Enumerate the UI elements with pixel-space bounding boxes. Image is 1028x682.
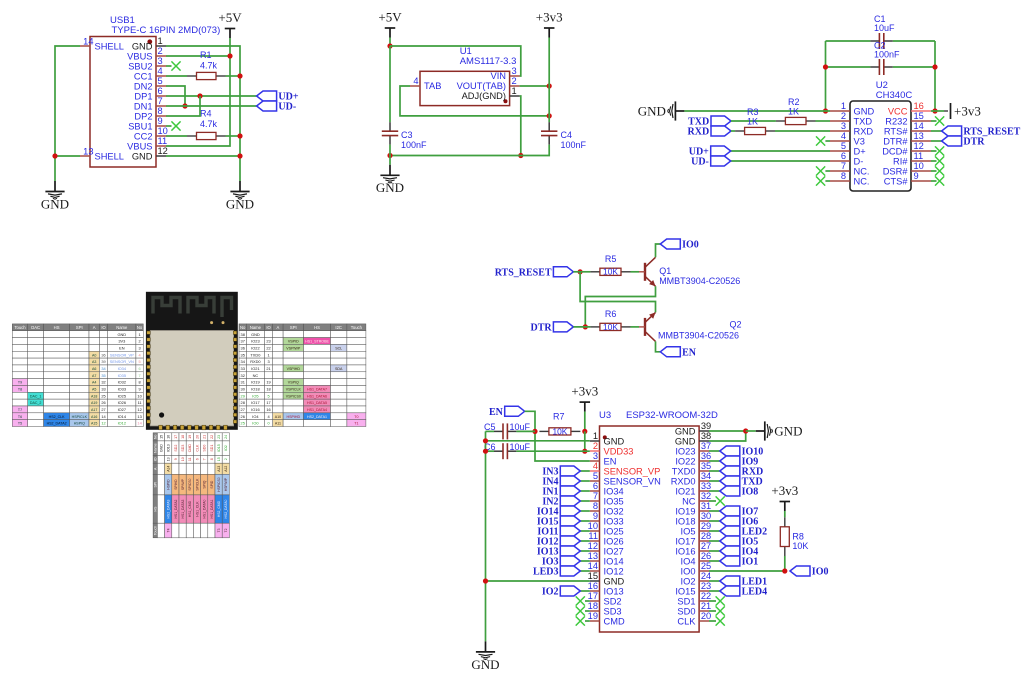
- no-connect: [816, 166, 825, 175]
- junction: [237, 153, 242, 158]
- svg-text:CH340C: CH340C: [876, 90, 913, 101]
- svg-text:13: 13: [167, 457, 171, 461]
- svg-text:R8: R8: [792, 532, 804, 542]
- junction: [547, 113, 552, 118]
- svg-text:HS1_DATA5: HS1_DATA5: [307, 401, 327, 405]
- svg-text:MMBT3904-C20526: MMBT3904-C20526: [658, 331, 739, 341]
- svg-text:2: 2: [512, 76, 517, 86]
- svg-text:DCD#: DCD#: [882, 146, 908, 156]
- svg-text:7: 7: [139, 373, 141, 378]
- svg-text:3: 3: [841, 121, 846, 131]
- wire: [709, 480, 720, 482]
- junction: [483, 578, 488, 583]
- junction: [237, 133, 242, 138]
- svg-text:SD2: SD2: [174, 445, 178, 452]
- wire: [389, 145, 391, 165]
- svg-text:T1: T1: [354, 422, 358, 426]
- svg-text:HS1_DATA7: HS1_DATA7: [307, 387, 327, 391]
- net flag RTS_RESET: [942, 126, 1021, 138]
- svg-text:SPI: SPI: [290, 325, 297, 330]
- wire: [166, 65, 172, 67]
- svg-text:39: 39: [701, 421, 711, 431]
- wire: [731, 160, 830, 162]
- junction: [532, 429, 537, 434]
- wire: [520, 96, 521, 156]
- svg-text:A15: A15: [91, 422, 97, 426]
- wire: [580, 590, 590, 592]
- svg-text:A14: A14: [167, 466, 171, 472]
- svg-text:5: 5: [139, 359, 141, 364]
- svg-text:24: 24: [224, 435, 228, 439]
- wire: [486, 440, 590, 442]
- svg-text:HSPICLK: HSPICLK: [72, 415, 88, 419]
- svg-text:HSPICS0: HSPICS0: [217, 477, 221, 492]
- svg-text:10K: 10K: [603, 322, 618, 332]
- svg-text:5: 5: [841, 141, 846, 151]
- svg-text:26: 26: [101, 400, 105, 405]
- svg-text:23: 23: [701, 581, 711, 591]
- wire: [485, 431, 487, 641]
- svg-text:T9: T9: [18, 381, 22, 385]
- svg-text:T6: T6: [18, 415, 22, 419]
- svg-text:7: 7: [158, 96, 163, 106]
- svg-text:2: 2: [139, 339, 141, 344]
- svg-text:30: 30: [701, 511, 711, 521]
- svg-text:1: 1: [139, 332, 141, 337]
- svg-text:IO0: IO0: [681, 566, 696, 576]
- junction: [237, 73, 242, 78]
- svg-text:HS2_CLK: HS2_CLK: [49, 415, 66, 419]
- svg-text:CMD: CMD: [604, 616, 625, 626]
- svg-text:ADJ(GND): ADJ(GND): [462, 91, 506, 101]
- svg-text:29: 29: [701, 521, 711, 531]
- net flag RXD: [688, 126, 731, 138]
- svg-text:DP1: DP1: [134, 91, 152, 101]
- svg-text:DAC_1: DAC_1: [30, 394, 42, 398]
- IC U2 CH340C: [830, 80, 931, 191]
- svg-text:IO34: IO34: [118, 366, 127, 371]
- wire: [709, 460, 720, 462]
- resistor R1 4.7k: [166, 50, 240, 80]
- svg-text:HSPID: HSPID: [167, 479, 171, 490]
- junction: [582, 429, 587, 434]
- svg-text:9: 9: [914, 171, 919, 181]
- wire: [585, 286, 655, 327]
- svg-text:R7: R7: [553, 412, 565, 422]
- svg-text:12: 12: [914, 141, 924, 151]
- wire: [709, 520, 720, 522]
- svg-text:7: 7: [593, 491, 598, 501]
- no-connect: [576, 606, 585, 615]
- junction: [743, 428, 748, 433]
- svg-text:8: 8: [593, 501, 598, 511]
- svg-text:35: 35: [241, 352, 245, 357]
- svg-text:16: 16: [167, 435, 171, 439]
- svg-text:1K: 1K: [747, 117, 758, 127]
- svg-text:18: 18: [588, 601, 598, 611]
- svg-text:A10: A10: [275, 415, 281, 419]
- net flag UD+: [689, 146, 731, 158]
- svg-text:IO2: IO2: [542, 587, 559, 598]
- resistor R3 1K: [731, 107, 830, 135]
- svg-text:HSPIQ: HSPIQ: [74, 422, 85, 426]
- no-connect: [816, 136, 825, 145]
- svg-text:+3v3: +3v3: [536, 10, 563, 25]
- svg-text:12: 12: [101, 421, 105, 426]
- svg-text:+3v3: +3v3: [571, 384, 598, 399]
- svg-text:IO0: IO0: [812, 567, 829, 578]
- svg-text:SCL: SCL: [335, 346, 342, 350]
- net flag IO6: [720, 516, 758, 528]
- svg-text:HS2_DATA1: HS2_DATA1: [307, 415, 327, 419]
- svg-text:IO23: IO23: [675, 446, 695, 456]
- svg-text:33: 33: [241, 366, 245, 371]
- svg-text:35: 35: [101, 373, 105, 378]
- wire: [580, 540, 590, 542]
- svg-text:Touch: Touch: [14, 325, 26, 330]
- svg-text:IO14: IO14: [118, 414, 127, 419]
- power +3v3: [571, 384, 598, 412]
- svg-text:IO21: IO21: [251, 366, 259, 371]
- svg-text:7: 7: [841, 161, 846, 171]
- svg-text:TXD: TXD: [854, 116, 873, 126]
- wire: [825, 140, 830, 142]
- svg-text:IO5: IO5: [681, 526, 696, 536]
- svg-text:HS1_STROBE: HS1_STROBE: [305, 340, 329, 344]
- svg-text:SHELL: SHELL: [95, 41, 124, 51]
- wire: [580, 550, 590, 552]
- svg-text:+5V: +5V: [218, 10, 242, 25]
- svg-text:U3: U3: [599, 410, 611, 421]
- svg-text:26: 26: [241, 414, 245, 419]
- svg-text:6: 6: [841, 151, 846, 161]
- svg-text:IO25: IO25: [118, 393, 126, 398]
- net flag IO9: [720, 456, 758, 468]
- net flag IO0: [660, 239, 698, 251]
- svg-text:HS1_DATA2: HS1_DATA2: [174, 499, 178, 518]
- transistor Q2 MMBT3904: [639, 312, 742, 341]
- svg-text:22: 22: [210, 435, 214, 439]
- wire: [709, 530, 720, 532]
- no-connect: [576, 596, 585, 605]
- svg-text:SPIQ: SPIQ: [203, 480, 207, 488]
- svg-text:LED4: LED4: [742, 587, 768, 598]
- wire: [166, 105, 257, 107]
- svg-text:RXD0: RXD0: [250, 359, 261, 364]
- svg-text:5: 5: [593, 471, 598, 481]
- svg-text:EN: EN: [604, 456, 617, 466]
- svg-text:14: 14: [83, 36, 93, 46]
- svg-text:2: 2: [158, 46, 163, 56]
- svg-text:IO: IO: [266, 325, 271, 330]
- svg-text:IO4: IO4: [252, 414, 259, 419]
- wire: [486, 580, 590, 582]
- svg-text:IO22: IO22: [675, 456, 695, 466]
- svg-text:IO12: IO12: [118, 421, 126, 426]
- svg-text:EN: EN: [489, 407, 504, 418]
- svg-text:GND: GND: [41, 196, 69, 211]
- wire: [389, 46, 391, 122]
- svg-text:21: 21: [266, 366, 270, 371]
- svg-text:9: 9: [593, 511, 598, 521]
- power +3v3: [951, 103, 981, 119]
- svg-text:A: A: [93, 325, 96, 330]
- svg-text:CC2: CC2: [134, 131, 153, 141]
- svg-text:GND: GND: [251, 332, 260, 337]
- svg-text:IO21: IO21: [675, 486, 695, 496]
- svg-text:32: 32: [101, 380, 105, 385]
- svg-text:GND: GND: [132, 41, 153, 51]
- svg-text:A7: A7: [92, 374, 96, 378]
- svg-text:ESP32-WROOM-32D: ESP32-WROOM-32D: [626, 410, 718, 421]
- svg-text:8: 8: [841, 171, 846, 181]
- svg-text:IO17: IO17: [251, 400, 259, 405]
- net flag IO3: [542, 556, 580, 568]
- svg-text:9: 9: [174, 458, 178, 460]
- svg-text:HSPIHD: HSPIHD: [287, 415, 301, 419]
- svg-text:VSPICS0: VSPICS0: [286, 394, 301, 398]
- svg-text:D-: D-: [854, 156, 864, 166]
- net flag IO14: [537, 506, 580, 518]
- net flag IO13: [537, 546, 580, 558]
- svg-text:GND: GND: [471, 657, 499, 672]
- wire: [580, 560, 590, 562]
- svg-text:EN: EN: [682, 348, 697, 359]
- svg-text:8: 8: [158, 106, 163, 116]
- svg-text:10: 10: [588, 521, 598, 531]
- svg-text:GND: GND: [675, 436, 696, 446]
- svg-text:SBU2: SBU2: [128, 61, 152, 71]
- svg-text:10K: 10K: [603, 267, 618, 277]
- svg-text:CLK: CLK: [677, 616, 696, 626]
- svg-text:RI#: RI#: [893, 156, 908, 166]
- junction: [547, 83, 552, 88]
- svg-text:IO: IO: [154, 457, 158, 461]
- wire: [585, 610, 590, 612]
- ground: [638, 101, 685, 120]
- svg-text:GND: GND: [376, 180, 404, 195]
- svg-text:LED3: LED3: [533, 567, 559, 578]
- wire: [584, 412, 586, 432]
- svg-text:17: 17: [588, 591, 598, 601]
- svg-text:HS1_DATA6: HS1_DATA6: [307, 394, 327, 398]
- junction: [932, 64, 937, 69]
- wire: [580, 530, 590, 532]
- svg-text:11: 11: [188, 457, 192, 461]
- svg-text:HS: HS: [154, 506, 158, 512]
- wire: [548, 38, 550, 123]
- svg-text:SPI: SPI: [154, 482, 158, 488]
- svg-text:23: 23: [266, 339, 270, 344]
- svg-text:SD3: SD3: [181, 445, 185, 452]
- svg-text:IO25: IO25: [604, 526, 624, 536]
- svg-text:7: 7: [203, 458, 207, 460]
- svg-text:100nF: 100nF: [561, 140, 587, 150]
- svg-text:12: 12: [158, 146, 168, 156]
- svg-text:26: 26: [701, 551, 711, 561]
- junction: [227, 53, 232, 58]
- wire: [166, 96, 200, 116]
- net flag IO15: [537, 516, 580, 528]
- svg-text:13: 13: [588, 551, 598, 561]
- svg-text:R1: R1: [200, 50, 212, 60]
- svg-text:11: 11: [158, 136, 168, 146]
- svg-text:10: 10: [181, 457, 185, 461]
- svg-text:HS2_CMD: HS2_CMD: [217, 500, 221, 517]
- wire: [784, 511, 786, 517]
- svg-text:IO27: IO27: [118, 407, 126, 412]
- svg-text:IO18: IO18: [251, 386, 259, 391]
- svg-text:27: 27: [101, 407, 105, 412]
- svg-text:T7: T7: [18, 408, 22, 412]
- svg-text:31: 31: [701, 501, 711, 511]
- svg-text:VSPIHD: VSPIHD: [287, 367, 301, 371]
- svg-text:2: 2: [593, 441, 598, 451]
- svg-text:32: 32: [701, 491, 711, 501]
- svg-text:RTS#: RTS#: [884, 126, 908, 136]
- wire: [709, 430, 746, 432]
- wire: [931, 170, 937, 172]
- svg-text:37: 37: [701, 441, 711, 451]
- svg-text:12: 12: [588, 541, 598, 551]
- wire: [55, 155, 80, 157]
- net flag UD-: [257, 101, 297, 113]
- wire: [709, 450, 720, 452]
- svg-text:10K: 10K: [792, 541, 808, 551]
- svg-text:R2: R2: [788, 97, 800, 107]
- svg-text:15: 15: [217, 457, 221, 461]
- svg-text:Q2: Q2: [730, 320, 742, 330]
- net flag IO8: [720, 486, 758, 498]
- wire: [389, 38, 391, 47]
- svg-text:GND: GND: [159, 444, 163, 452]
- svg-text:C3: C3: [401, 130, 413, 140]
- svg-text:23: 23: [217, 435, 221, 439]
- ground: [471, 641, 499, 671]
- svg-text:IO34: IO34: [604, 486, 624, 496]
- svg-text:SENSOR_VN: SENSOR_VN: [604, 476, 661, 486]
- svg-text:IO0: IO0: [682, 240, 699, 251]
- svg-text:1: 1: [593, 431, 598, 441]
- svg-text:38: 38: [701, 431, 711, 441]
- svg-text:19: 19: [188, 435, 192, 439]
- svg-text:T5: T5: [18, 422, 22, 426]
- svg-text:11: 11: [588, 531, 598, 541]
- svg-text:VSPID: VSPID: [288, 340, 299, 344]
- wire: [656, 341, 661, 351]
- svg-text:R5: R5: [605, 254, 617, 264]
- wire: [934, 41, 936, 111]
- wire: [709, 550, 720, 552]
- svg-text:3V3: 3V3: [118, 339, 125, 344]
- wire: [166, 155, 240, 157]
- svg-text:IO35: IO35: [118, 373, 126, 378]
- svg-text:DAC_2: DAC_2: [30, 401, 42, 405]
- net flag TXD: [688, 116, 731, 128]
- wire: [931, 140, 942, 142]
- capacitor C4 100nF: [541, 122, 587, 150]
- svg-text:11: 11: [914, 151, 924, 161]
- svg-text:Name: Name: [116, 325, 128, 330]
- svg-text:25: 25: [241, 421, 245, 426]
- no-connect: [816, 176, 825, 185]
- wire: [931, 130, 942, 132]
- no-connect: [171, 61, 180, 70]
- svg-text:NC: NC: [682, 496, 696, 506]
- svg-text:6: 6: [195, 458, 199, 460]
- resistor R5 10K: [573, 254, 639, 277]
- svg-text:No: No: [137, 325, 143, 330]
- svg-text:SPIHD: SPIHD: [174, 479, 178, 490]
- svg-text:14: 14: [914, 121, 924, 131]
- svg-text:HSPIWP: HSPIWP: [224, 477, 228, 491]
- svg-text:SD0: SD0: [677, 606, 695, 616]
- svg-text:IO26: IO26: [118, 400, 126, 405]
- svg-text:GND: GND: [604, 436, 625, 446]
- svg-text:C4: C4: [561, 130, 573, 140]
- net flag LED3: [533, 566, 580, 578]
- junction: [932, 108, 937, 113]
- svg-text:UD-: UD-: [278, 102, 296, 113]
- svg-text:10: 10: [914, 161, 924, 171]
- svg-text:GND: GND: [854, 106, 875, 116]
- svg-text:3: 3: [267, 359, 269, 364]
- svg-text:HS1_CLK: HS1_CLK: [195, 501, 199, 517]
- svg-text:RXD: RXD: [854, 126, 874, 136]
- svg-text:VBUS: VBUS: [127, 141, 152, 151]
- svg-text:A3: A3: [92, 360, 96, 364]
- svg-text:A17: A17: [91, 408, 97, 412]
- wire: [709, 600, 716, 602]
- svg-text:CMD: CMD: [188, 444, 192, 453]
- ground: [41, 181, 69, 211]
- svg-text:IO16: IO16: [251, 407, 259, 412]
- svg-text:+3v3: +3v3: [954, 104, 981, 119]
- wire: [525, 411, 590, 461]
- wire: [709, 500, 716, 502]
- no-connect: [716, 616, 725, 625]
- wire: [709, 540, 720, 542]
- svg-text:TXD0: TXD0: [672, 466, 696, 476]
- wire: [709, 470, 720, 472]
- svg-text:1: 1: [267, 352, 269, 357]
- wire: [580, 480, 590, 482]
- capacitor C6 10uF: [484, 442, 590, 459]
- svg-text:HS1_DATA4: HS1_DATA4: [307, 408, 327, 412]
- svg-text:DAC: DAC: [31, 325, 40, 330]
- wire: [825, 180, 830, 182]
- svg-text:6: 6: [593, 481, 598, 491]
- svg-text:HS: HS: [54, 325, 60, 330]
- svg-text:16: 16: [914, 101, 924, 111]
- svg-text:SENSOR_VN: SENSOR_VN: [110, 359, 134, 364]
- svg-text:NC.: NC.: [854, 166, 870, 176]
- svg-text:2: 2: [841, 111, 846, 121]
- wire: [731, 150, 830, 152]
- svg-text:27: 27: [241, 407, 245, 412]
- svg-text:10uF: 10uF: [510, 442, 531, 452]
- svg-text:VCC: VCC: [888, 106, 908, 116]
- svg-text:34: 34: [701, 471, 711, 481]
- junction: [52, 153, 57, 158]
- svg-text:GND: GND: [675, 426, 696, 436]
- svg-text:IO1: IO1: [742, 557, 759, 568]
- junction: [823, 64, 828, 69]
- svg-text:33: 33: [701, 481, 711, 491]
- net flag IN4: [542, 476, 580, 488]
- svg-text:Touch: Touch: [154, 526, 158, 536]
- svg-text:A16: A16: [91, 415, 97, 419]
